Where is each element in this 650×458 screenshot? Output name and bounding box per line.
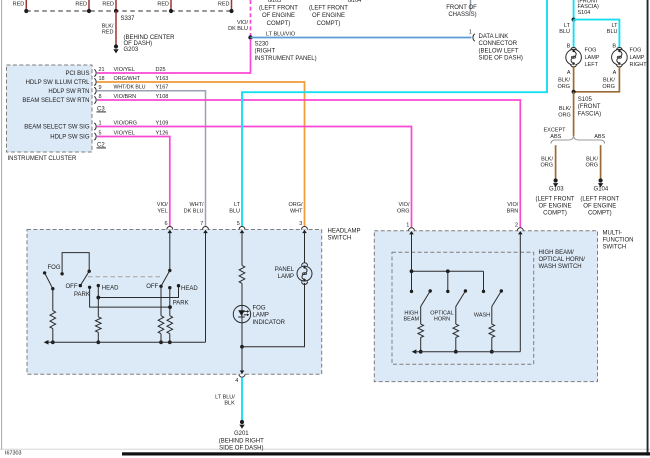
svg-text:DK BLU: DK BLU <box>184 209 204 215</box>
svg-text:WASH: WASH <box>474 313 490 319</box>
svg-text:PANEL: PANEL <box>275 267 295 273</box>
svg-text:OF ENGINE: OF ENGINE <box>312 13 345 19</box>
label FOG LAMP INDICATOR <box>253 306 286 326</box>
wire LT BLU/BLK to G201 <box>215 377 242 420</box>
svg-text:(BELOW LEFT: (BELOW LEFT <box>479 48 519 54</box>
wire RED stub 1 <box>13 0 27 11</box>
svg-text:INSTRUMENT CLUSTER: INSTRUMENT CLUSTER <box>8 156 78 162</box>
ground G103 <box>553 178 558 187</box>
fog lamp indicator LED <box>233 305 250 322</box>
svg-text:DATA LINK: DATA LINK <box>479 34 509 40</box>
wire RED stub 4 <box>157 0 171 11</box>
pin 5 entry <box>237 221 245 238</box>
svg-text:BLK/: BLK/ <box>586 156 598 162</box>
svg-text:DK BLU: DK BLU <box>228 26 248 32</box>
svg-text:D25: D25 <box>156 67 166 73</box>
svg-text:LAMP: LAMP <box>630 55 645 61</box>
svg-text:CHASSIS): CHASSIS) <box>448 12 476 18</box>
wire return bus to pin2 <box>519 239 521 352</box>
svg-text:BLK/: BLK/ <box>102 23 114 29</box>
svg-text:4: 4 <box>235 378 238 384</box>
svg-text:VIO/YEL: VIO/YEL <box>114 67 135 73</box>
pin 4 exit <box>235 371 245 385</box>
svg-text:LAMP: LAMP <box>278 274 294 280</box>
junction dot <box>410 269 414 273</box>
junction dot <box>168 305 172 309</box>
wire BLK/ORG to G104 <box>585 145 600 179</box>
connector C2 <box>97 142 107 148</box>
svg-text:PARK: PARK <box>74 292 90 298</box>
svg-text:SIDE OF DASH): SIDE OF DASH) <box>479 56 523 62</box>
label VIO/ORG above MFS pin1 <box>397 202 410 215</box>
pin 6 entry <box>165 221 173 238</box>
svg-text:ORG/: ORG/ <box>288 202 303 208</box>
svg-text:G104: G104 <box>594 187 609 193</box>
junction dot <box>240 345 244 349</box>
label front of chassis <box>446 5 477 18</box>
wire RED stub 3 <box>102 0 116 11</box>
svg-text:ORG: ORG <box>557 84 570 90</box>
label VIO/YEL above pin6 <box>157 202 168 215</box>
svg-text:Y126: Y126 <box>156 130 169 136</box>
svg-text:VIO/ORG: VIO/ORG <box>114 120 138 126</box>
ground bus wire <box>48 341 206 343</box>
svg-text:FOG: FOG <box>48 265 61 271</box>
svg-text:OFF: OFF <box>146 284 158 290</box>
wire to resistor R2 <box>97 298 99 317</box>
label HEADLAMP SWITCH <box>328 228 361 241</box>
resistor R4 <box>167 316 173 334</box>
switch pole 1 FOG contact <box>43 271 46 274</box>
switch right pole lever to OFF <box>159 271 170 288</box>
svg-text:Y167: Y167 <box>156 85 169 91</box>
wire HEAD link to right pole HEAD <box>98 286 178 298</box>
svg-text:(LEFT FRONT: (LEFT FRONT <box>259 6 298 12</box>
wire pin3 to panel lamp <box>304 238 306 267</box>
svg-text:OF ENGINE: OF ENGINE <box>583 204 616 210</box>
contact PARK right pole <box>168 286 171 289</box>
svg-text:INDICATOR: INDICATOR <box>253 320 286 326</box>
wire to resistor R8 <box>491 307 493 325</box>
svg-text:HDLP SW ILLUM CTRL: HDLP SW ILLUM CTRL <box>26 80 91 86</box>
svg-text:VIO/: VIO/ <box>237 20 248 26</box>
contact C <box>60 272 63 275</box>
connector C3 <box>97 106 107 112</box>
svg-text:G103: G103 <box>268 0 281 4</box>
svg-text:WHT: WHT <box>290 209 303 215</box>
resistor R6 <box>418 324 424 337</box>
svg-text:COMPT): COMPT) <box>317 21 341 27</box>
switch optical horn <box>456 289 467 306</box>
wire PARK right to resistor R4 <box>169 288 171 316</box>
svg-text:CONNECTOR: CONNECTOR <box>479 41 518 47</box>
wire R3 to bus <box>160 334 162 343</box>
svg-text:PARK: PARK <box>173 300 189 306</box>
fog lamp left <box>566 47 582 66</box>
wire BLK/RED to G203 <box>102 11 116 45</box>
wire R4 to bus <box>169 334 171 343</box>
svg-text:LEFT: LEFT <box>585 62 599 68</box>
svg-text:WASH SWITCH: WASH SWITCH <box>539 264 582 270</box>
svg-text:(LEFT FRONT: (LEFT FRONT <box>580 196 619 202</box>
svg-text:OF ENGINE: OF ENGINE <box>538 204 571 210</box>
svg-text:HDLP SW SIG: HDLP SW SIG <box>50 135 90 141</box>
svg-text:WHT/DK BLU: WHT/DK BLU <box>114 85 146 91</box>
resistor R2 <box>96 317 102 332</box>
svg-text:Y108: Y108 <box>156 94 169 100</box>
wire VIO/BRN Y108 pin8 to multi-function sw pin2 <box>97 100 520 231</box>
headlamp switch box <box>27 230 322 375</box>
svg-text:ABS: ABS <box>594 134 605 140</box>
svg-text:ORG: ORG <box>540 163 553 169</box>
wire RED stub 5 <box>218 0 232 11</box>
wire stub top at 470 <box>470 0 472 12</box>
svg-text:BEAM SELECT SW SIG: BEAM SELECT SW SIG <box>24 125 90 131</box>
svg-text:RED: RED <box>102 30 114 36</box>
label OPTICAL HORN <box>430 311 454 323</box>
label G201 location <box>219 431 264 451</box>
junction dot <box>87 9 91 13</box>
wire OFF to resistor R3 <box>160 286 162 315</box>
svg-text:6: 6 <box>165 221 168 227</box>
label LT BLU above pin5 <box>229 202 240 215</box>
wire R2 to bus <box>97 332 99 342</box>
svg-text:LAMP: LAMP <box>585 55 600 61</box>
svg-text:ABS: ABS <box>550 134 561 140</box>
svg-text:RIGHT: RIGHT <box>630 62 648 68</box>
svg-text:BLU: BLU <box>559 29 570 35</box>
svg-text:OPTICAL HORN/: OPTICAL HORN/ <box>539 257 586 263</box>
wire R8 to return bus <box>491 338 493 352</box>
svg-text:S104: S104 <box>578 10 591 16</box>
svg-text:Y109: Y109 <box>156 120 169 126</box>
multi-function switch box <box>374 231 597 382</box>
svg-text:HEAD: HEAD <box>181 286 198 292</box>
label HIGH BEAM/OPTICAL HORN/WASH SWITCH <box>539 250 586 270</box>
wire panel lamp to LED bus <box>242 283 305 347</box>
label FOG LAMP LEFT <box>585 48 600 68</box>
wire pin6 to right pole pivot <box>169 238 171 271</box>
svg-text:S230: S230 <box>255 42 270 48</box>
svg-text:(FRONT: (FRONT <box>578 104 601 110</box>
svg-text:COMPT): COMPT) <box>543 211 567 217</box>
ground G104 <box>598 178 603 187</box>
svg-text:VIO/: VIO/ <box>157 202 168 208</box>
contact HEAD pole2 <box>97 284 100 287</box>
svg-text:RED: RED <box>13 2 25 8</box>
svg-text:(BEHIND RIGHT: (BEHIND RIGHT <box>219 438 264 444</box>
svg-text:HIGH BEAM/: HIGH BEAM/ <box>539 250 575 256</box>
wire BLK/ORG fog left to S105 <box>557 66 573 92</box>
svg-text:ORG: ORG <box>585 163 598 169</box>
svg-text:HEAD: HEAD <box>102 286 119 292</box>
svg-text:BLK/: BLK/ <box>603 78 615 84</box>
label G103 location <box>536 187 575 217</box>
svg-text:OFF: OFF <box>66 284 78 290</box>
wire to high beam contact <box>410 271 413 293</box>
label EXCEPT ABS <box>543 128 566 140</box>
svg-text:WHT/: WHT/ <box>189 202 204 208</box>
svg-text:MULTI-: MULTI- <box>603 230 623 236</box>
wire LT BLU to S104 <box>573 0 575 20</box>
junction S104 <box>572 18 576 22</box>
svg-text:RED: RED <box>75 2 87 8</box>
svg-text:I67303: I67303 <box>5 450 22 456</box>
label MULTI-FUNCTION SWITCH <box>603 230 634 250</box>
label data link connector <box>479 34 523 62</box>
junction dot <box>168 340 172 344</box>
svg-text:(RIGHT: (RIGHT <box>255 49 276 55</box>
ground G201 <box>239 420 244 429</box>
panel lamp <box>297 263 312 285</box>
wire pin5 to resistor R5 <box>241 238 243 266</box>
wire VIO/YEL D25 pin21 to S230 <box>97 39 251 73</box>
high beam/optical horn/wash switch box <box>392 252 534 364</box>
wire R5 to LED <box>241 283 243 346</box>
split brace <box>551 137 605 144</box>
pin 8 BEAM SELECT SW RTN <box>22 94 168 104</box>
label WHT/DK BLU above pin7 <box>184 202 204 215</box>
wire to resistor R7 <box>455 307 457 325</box>
wire R6 to return bus <box>420 338 422 352</box>
wire LT BLU/VIO to data link connector <box>251 31 472 37</box>
junction dot <box>490 350 494 354</box>
svg-text:HORN: HORN <box>434 316 450 322</box>
switch pole 1 lever <box>45 273 55 291</box>
wire LT BLU fog lamp feed to headlamp sw pin5 <box>242 0 547 230</box>
resistor R7 <box>453 324 459 337</box>
svg-text:ORG: ORG <box>558 113 571 119</box>
label S105 (FRONT FASCIA) <box>578 97 601 117</box>
contact PARK pole2 <box>88 286 91 289</box>
svg-text:A: A <box>567 70 571 76</box>
wire ORG/WHT Y163 pin18 to headlamp sw pin3 <box>97 82 305 230</box>
svg-text:(LEFT FRONT: (LEFT FRONT <box>536 196 575 202</box>
svg-text:VIO/: VIO/ <box>507 202 518 208</box>
svg-text:3: 3 <box>299 221 302 227</box>
svg-text:LT BLU/VIO: LT BLU/VIO <box>266 31 296 37</box>
resistor R1 <box>50 311 56 329</box>
label location (left front of engine compt) 1 <box>259 6 298 27</box>
junction dot <box>419 350 423 354</box>
return bus arrow <box>412 349 417 354</box>
wire BLK/ORG S105 to split <box>558 92 573 137</box>
svg-text:SWITCH: SWITCH <box>603 245 627 251</box>
svg-text:HEADLAMP: HEADLAMP <box>328 228 361 234</box>
svg-text:BLU: BLU <box>229 209 240 215</box>
svg-text:(BEHIND CENTER: (BEHIND CENTER <box>124 35 176 41</box>
wire pin1 to feed bus <box>411 239 413 271</box>
svg-text:S105: S105 <box>578 97 593 103</box>
svg-text:RED: RED <box>102 2 114 8</box>
svg-text:G201: G201 <box>234 431 249 437</box>
pin 9 HDLP SW RTN <box>48 85 168 95</box>
svg-text:RED: RED <box>157 2 169 8</box>
svg-text:COMPT): COMPT) <box>267 21 291 27</box>
label HIGH BEAM <box>404 311 420 323</box>
svg-text:HDLP SW RTN: HDLP SW RTN <box>48 89 89 95</box>
svg-text:FOG: FOG <box>630 48 642 54</box>
svg-text:VIO/YEL: VIO/YEL <box>114 130 135 136</box>
svg-text:OF ENGINE: OF ENGINE <box>262 13 295 19</box>
svg-text:OF DASH): OF DASH) <box>124 41 153 47</box>
svg-text:COMPT): COMPT) <box>588 211 612 217</box>
node RED bus (dashed) <box>26 10 231 12</box>
junction S230 <box>248 35 316 62</box>
svg-text:BLK/: BLK/ <box>541 156 553 162</box>
left page border <box>1 0 3 450</box>
label location (left front of engine compt) 2 <box>309 6 348 27</box>
junction S105 <box>572 90 576 94</box>
svg-text:FRONT OF: FRONT OF <box>446 5 477 11</box>
pin 21 PCI BUS <box>65 67 165 77</box>
wire PARK to R4 column <box>90 287 170 307</box>
svg-text:G103: G103 <box>549 187 564 193</box>
pin 5 HDLP SW SIG <box>50 130 168 140</box>
wire BLK/ORG fog right to S105 <box>574 66 620 92</box>
bottom frame line <box>0 448 650 450</box>
svg-text:FOG: FOG <box>253 306 266 312</box>
svg-text:LT BLU/: LT BLU/ <box>215 394 235 400</box>
svg-text:BLK/: BLK/ <box>559 106 571 112</box>
svg-text:B: B <box>612 44 616 50</box>
pin 3 entry <box>299 221 307 238</box>
resistor R3 <box>158 316 164 334</box>
connector bracket <box>473 34 475 41</box>
bus arrow left <box>44 340 49 345</box>
label FOG LAMP RIGHT <box>630 48 648 68</box>
svg-text:VIO/: VIO/ <box>398 202 409 208</box>
junction dot <box>51 340 55 344</box>
junction dot <box>454 350 458 354</box>
svg-text:FOG: FOG <box>585 48 597 54</box>
bottom black bar <box>122 452 650 455</box>
svg-text:7: 7 <box>200 221 203 227</box>
wire to resistor R6 <box>420 307 422 325</box>
wire R7 to return bus <box>455 338 457 352</box>
svg-text:ORG: ORG <box>602 84 615 90</box>
fog lamp right <box>612 47 628 66</box>
pin 1 entry MFS <box>406 223 414 240</box>
ground G203 <box>113 44 118 53</box>
svg-text:A: A <box>613 70 617 76</box>
junction dot <box>446 269 450 273</box>
svg-text:ORG: ORG <box>397 209 410 215</box>
resistor R8 <box>489 324 495 337</box>
wire bridge C to pole2 pivot <box>62 253 89 274</box>
wire VIO/DK BLU (dashed, to top) <box>228 0 250 36</box>
svg-text:LT: LT <box>234 202 241 208</box>
wire BLK/ORG to G103 <box>540 145 555 179</box>
svg-text:G203: G203 <box>124 47 139 53</box>
switch high beam <box>421 289 432 306</box>
wire VIO/YEL Y126 pin5 to headlamp sw pin6 <box>97 137 170 230</box>
wire to wash contact <box>482 271 485 293</box>
wire LT BLU to fog lamp right <box>574 20 620 49</box>
return bus wire <box>416 351 521 353</box>
svg-text:SWITCH: SWITCH <box>328 236 352 242</box>
wire bus to pin7 <box>205 238 207 343</box>
contact HEAD right pole <box>177 284 180 287</box>
svg-text:BEAM SELECT SW RTN: BEAM SELECT SW RTN <box>22 98 89 104</box>
svg-text:INSTRUMENT PANEL): INSTRUMENT PANEL) <box>255 56 317 62</box>
svg-text:BLU: BLU <box>607 29 618 35</box>
wire LT BLU to fog lamp left <box>559 20 573 49</box>
svg-text:Y163: Y163 <box>156 76 169 82</box>
svg-text:FASCIA): FASCIA) <box>578 111 601 117</box>
wire LED junction to pin4 <box>241 347 243 371</box>
junction dot <box>96 340 100 344</box>
svg-text:VIO/BRN: VIO/BRN <box>114 94 137 100</box>
svg-text:BEAM: BEAM <box>404 316 420 322</box>
svg-text:YEL: YEL <box>157 209 167 215</box>
pin 18 HDLP SW ILLUM CTRL <box>26 76 169 86</box>
svg-text:(LEFT FRONT: (LEFT FRONT <box>309 6 348 12</box>
junction dot <box>229 9 233 13</box>
svg-text:FUNCTION: FUNCTION <box>603 238 634 244</box>
svg-text:LAMP: LAMP <box>253 313 269 319</box>
junction S337 <box>114 9 135 22</box>
resistor R5 <box>239 265 245 283</box>
label ORG/WHT above pin3 <box>288 202 303 215</box>
svg-text:BLK/: BLK/ <box>558 78 570 84</box>
label (FRONT FASCIA) S104 <box>578 0 600 16</box>
instrument cluster box <box>7 65 93 152</box>
wire pole1 to resistor R1 <box>52 289 54 311</box>
wire to optical horn contact <box>446 271 449 293</box>
svg-text:5: 5 <box>237 221 240 227</box>
label VIO/BRN above MFS pin2 <box>507 202 519 215</box>
junction dot <box>159 340 163 344</box>
right page border <box>647 0 649 456</box>
label G104 location <box>580 187 619 217</box>
switch wash <box>492 289 503 306</box>
svg-text:G104: G104 <box>348 0 361 4</box>
switch pole 2 lever to OFF <box>79 271 90 287</box>
label PANEL LAMP <box>275 267 295 280</box>
switch right pole pivot <box>168 269 171 272</box>
pin 2 entry MFS <box>515 223 523 240</box>
svg-text:B: B <box>567 44 571 50</box>
junction dot <box>96 296 100 300</box>
svg-text:2: 2 <box>515 223 518 229</box>
wire RED stub 2 <box>75 0 89 11</box>
mechanical link (dashed) <box>88 276 160 278</box>
feed bus <box>412 270 484 272</box>
junction dot <box>169 9 173 13</box>
svg-text:BRN: BRN <box>507 209 519 215</box>
svg-text:SIDE OF DASH): SIDE OF DASH) <box>219 445 263 451</box>
switch pole 2 pivot <box>88 270 91 273</box>
junction dot <box>24 9 28 13</box>
wire R1 to bus <box>52 329 54 343</box>
svg-text:BLK: BLK <box>224 401 235 407</box>
pin 7 entry <box>200 221 208 238</box>
svg-text:LT: LT <box>611 23 618 29</box>
svg-text:LT: LT <box>564 23 571 29</box>
wire WHT/DK BLU Y167 pin9 to headlamp sw pin7 <box>97 91 206 230</box>
svg-text:S337: S337 <box>121 16 136 22</box>
svg-text:ORG/WHT: ORG/WHT <box>114 76 141 82</box>
svg-text:1: 1 <box>406 223 409 229</box>
svg-text:RED: RED <box>218 2 230 8</box>
label G203 location <box>124 35 176 53</box>
svg-text:EXCEPT: EXCEPT <box>543 128 566 134</box>
svg-text:1: 1 <box>469 30 472 36</box>
pin 1 BEAM SELECT SW SIG <box>24 120 168 130</box>
wire VIO/ORG Y109 pin1 to multi-function sw pin1 <box>97 127 412 231</box>
svg-text:PCI BUS: PCI BUS <box>65 71 89 77</box>
